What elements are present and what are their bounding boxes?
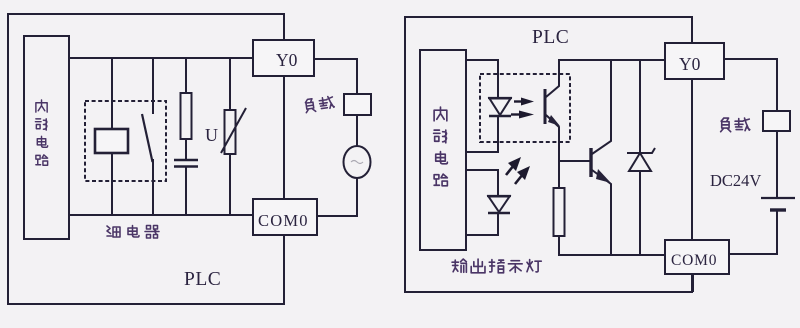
light arrow lower (opto): [511, 113, 522, 115]
wire: COM0 to bottom border (right): [692, 274, 694, 292]
AC tilde inside source: [351, 161, 363, 164]
PLC outer box (right transistor-output diagram): [405, 17, 692, 292]
wire: Y0 to top border (right): [691, 17, 693, 43]
light arrow upper (opto): [514, 100, 524, 102]
optocoupler dashed box: [480, 74, 570, 142]
wire: Y0 to top border (left): [283, 14, 285, 40]
wire: AC source down to COM0 return: [317, 178, 357, 216]
label 内部电路 (right internal circuit, vertical): [434, 107, 448, 186]
label 输出指示灯 (output indicator lamp): [452, 259, 541, 273]
Y0 terminal box (right): [665, 43, 724, 79]
AC source circle: [344, 146, 371, 178]
wire: switch branch top: [152, 58, 154, 114]
load box 负载 (left): [344, 94, 371, 115]
label 内部电路 (left internal circuit, vertical): [35, 100, 47, 165]
opto LED cathode bar: [489, 115, 511, 117]
wire: zener branch top: [639, 60, 641, 152]
wire: Y0 down to COM0 (left PLC border): [283, 76, 285, 199]
COM0 terminal box (right): [665, 240, 729, 274]
phototransistor collector: [546, 60, 559, 97]
battery negative plate: [770, 208, 786, 211]
wire: varistor branch bottom: [229, 154, 231, 215]
resistor R (snubber): [181, 93, 192, 139]
wire: opto LED feed from internal box: [466, 60, 498, 97]
transistor collector: [592, 60, 611, 154]
wire: top bus y=60 collector to Y0 (right): [558, 59, 666, 61]
indicator LED triangle: [489, 197, 510, 213]
svg-text:PLC: PLC: [184, 269, 221, 290]
wire: relay coil branch top: [111, 58, 113, 131]
transistor base bar: [589, 148, 592, 177]
label 继电器 (relay): [107, 226, 159, 239]
wire: battery down to COM0 return (right): [729, 211, 777, 254]
opto LED triangle: [490, 99, 511, 116]
phototransistor emitter: [546, 115, 559, 161]
capacitor C bottom plate: [174, 165, 198, 168]
relay dashed box 继电器: [85, 101, 166, 181]
indicator arrowhead left: [508, 157, 521, 171]
wire: below capacitor: [185, 166, 187, 215]
varistor RV body: [225, 110, 236, 154]
label 负载 (load, left): [305, 96, 335, 113]
wire: bottom internal bus y=215 from internal box to COM0: [69, 214, 254, 216]
opto LED anode bar: [488, 97, 512, 99]
svg-text:Y0: Y0: [679, 54, 701, 74]
phototransistor base bar: [544, 89, 547, 124]
resistor (base-emitter): [554, 188, 565, 236]
wire: resistor to bottom bus: [559, 236, 666, 255]
wire: top internal bus y=58 from internal box to Y0: [69, 57, 254, 59]
wire: emitter node to transistor base: [559, 160, 590, 162]
zener cathode bar with bent end: [627, 148, 655, 153]
relay coil: [95, 129, 128, 153]
PLC outer box (left relay-output diagram): [8, 14, 284, 304]
wire: load to battery: [776, 131, 778, 198]
wire: load box to AC source: [356, 115, 358, 147]
wire: indicator LED feed: [466, 170, 498, 195]
label 负载 (load, right): [721, 118, 750, 132]
indicator arrowhead right: [517, 166, 530, 180]
svg-text:Y0: Y0: [276, 50, 298, 70]
transistor emitter arrowhead: [596, 169, 611, 183]
wire: emitter node down to resistor: [558, 160, 560, 188]
wire: RC snubber branch top: [185, 58, 187, 93]
wire: relay coil branch bottom: [111, 152, 113, 215]
indicator LED cathode bar: [488, 212, 510, 214]
svg-text:PLC: PLC: [532, 27, 569, 48]
wire: external load wire from Y0 (right): [724, 59, 777, 111]
indicator light arrow left: [506, 165, 514, 175]
wire: zener branch bottom: [639, 171, 641, 255]
svg-text:DC24V: DC24V: [710, 171, 761, 190]
switch blade (relay contact): [142, 114, 153, 162]
internal circuit box 内部电路 (right): [420, 50, 466, 250]
load box 负载 (right): [763, 111, 790, 131]
Y0 output terminal box (left): [253, 40, 314, 76]
phototransistor emitter arrowhead: [548, 115, 560, 126]
COM0 terminal box (left): [253, 199, 317, 235]
capacitor C top plate: [174, 159, 198, 162]
wire: Y0 down to COM0 (right PLC border): [691, 79, 693, 240]
internal circuit box 内部电路 (left): [24, 36, 69, 239]
wire: between resistor and capacitor: [185, 139, 187, 160]
wire: opto LED return to internal box: [466, 116, 498, 152]
varistor diagonal stroke: [221, 108, 246, 153]
wire: COM0 to bottom border (left): [283, 235, 285, 304]
indicator LED anode bar: [487, 195, 511, 197]
zener diode triangle: [629, 153, 651, 171]
svg-text:COM0: COM0: [671, 252, 717, 269]
wire: indicator LED return: [466, 213, 498, 235]
wire: varistor branch top: [229, 58, 231, 110]
transistor emitter: [592, 170, 611, 255]
svg-text:U: U: [205, 125, 218, 145]
wire: switch branch bottom: [152, 159, 154, 215]
indicator light arrow right: [515, 174, 523, 184]
wire: external load wire from Y0: [314, 59, 357, 94]
svg-text:COM0: COM0: [258, 211, 309, 230]
battery positive plate: [761, 197, 795, 199]
